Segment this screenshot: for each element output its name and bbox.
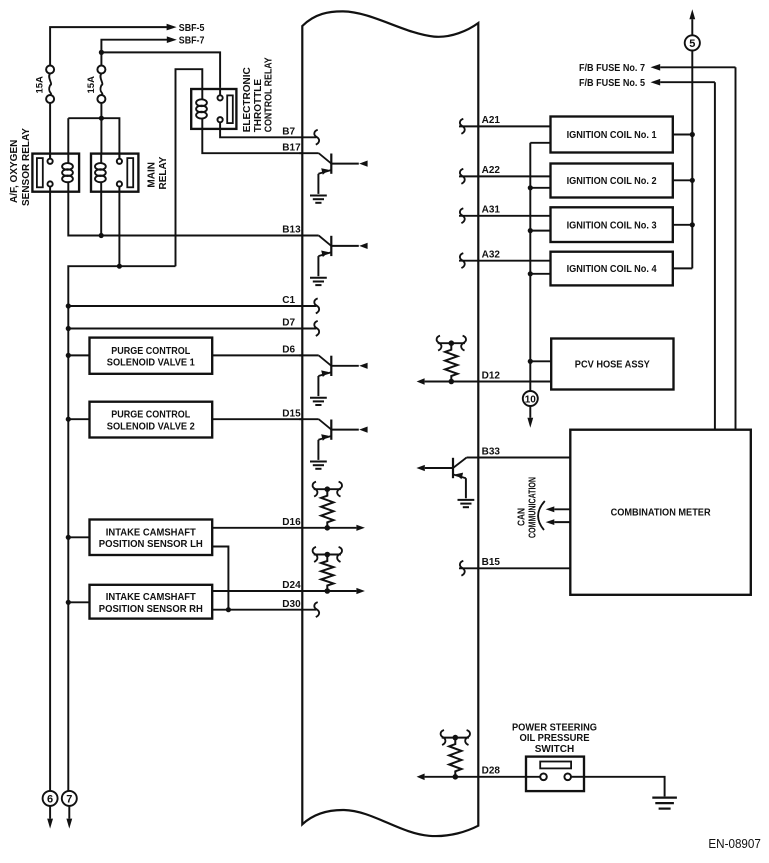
svg-text:D16: D16 (282, 517, 301, 528)
hook pin C1 (314, 298, 319, 313)
resistor R2 pullup on D24 (313, 547, 342, 594)
svg-text:A22: A22 (482, 165, 501, 176)
wire bus to intake camshaft position sensor RH (68, 601, 89, 603)
wire ignition coil 2 supply to bus (673, 179, 693, 181)
svg-text:CAN: CAN (517, 508, 528, 526)
wire pin B7 from ETC relay contact (220, 129, 316, 137)
svg-text:F/B FUSE No. 5: F/B FUSE No. 5 (579, 78, 645, 89)
relay: main relay box (91, 154, 138, 192)
svg-text:MAIN: MAIN (146, 162, 157, 188)
svg-text:THROTTLE: THROTTLE (253, 79, 264, 133)
label A31 (482, 205, 501, 216)
label MAIN RELAY (146, 156, 169, 189)
svg-text:PCV HOSE ASSY: PCV HOSE ASSY (575, 360, 650, 371)
svg-text:B7: B7 (282, 126, 295, 137)
wire D24 internal to arrow (302, 588, 365, 594)
svg-text:IGNITION COIL No. 1: IGNITION COIL No. 1 (567, 130, 657, 141)
node fuse2 output junction (99, 116, 104, 121)
svg-text:SWITCH: SWITCH (535, 744, 574, 755)
svg-text:PURGE CONTROL: PURGE CONTROL (111, 410, 190, 421)
transistor Q1 (B17 driver) (299, 153, 367, 203)
box ignition coil No.1 (551, 117, 673, 153)
arrow from F/B fuse 7 (651, 64, 736, 71)
label PURGE CONTROL SOLENOID VALVE 1 (107, 346, 195, 369)
node coil2 supply junction (690, 178, 695, 183)
node PCV supply junction (528, 359, 533, 364)
box purge control solenoid valve 2 (90, 402, 213, 438)
transistor Q5 (B33 input) (416, 458, 481, 508)
arrow below circle 7 (66, 806, 72, 829)
svg-text:7: 7 (66, 794, 72, 806)
svg-text:F/B FUSE No. 7: F/B FUSE No. 7 (579, 63, 645, 74)
node coil1 supply junction (690, 132, 695, 137)
arrow to SBF-5 (167, 24, 177, 31)
svg-text:D24: D24 (282, 580, 301, 591)
wire ignition coil 1 supply to bus (673, 134, 693, 136)
label C1 (282, 295, 295, 306)
wire bus to purge control solenoid valve 2 (68, 418, 89, 420)
ETC relay coil (196, 89, 207, 129)
box power steering oil pressure switch (526, 757, 584, 792)
label A32 (482, 250, 501, 261)
hook pin A21 (460, 119, 465, 134)
svg-text:B33: B33 (482, 446, 501, 457)
box ignition coil No.2 (551, 164, 673, 198)
main relay contact pins (117, 154, 122, 192)
label INTAKE CAMSHAFT POSITION SENSOR LH (99, 527, 203, 550)
wire pin B13 from relay coils (68, 192, 302, 236)
fuse F1 15A (46, 66, 54, 104)
svg-text:IGNITION COIL No. 3: IGNITION COIL No. 3 (567, 220, 657, 231)
svg-text:COMBINATION METER: COMBINATION METER (611, 507, 712, 518)
transistor Q2 (B13 driver) (299, 236, 367, 286)
resistor R3 pullup on D12 (437, 336, 466, 385)
wire bus to purge control solenoid valve 1 (68, 354, 89, 356)
A/F relay coil (62, 154, 73, 192)
label D12 (482, 370, 501, 381)
node main relay coil junction on B13 (99, 233, 104, 238)
svg-text:COMMUNICATION: COMMUNICATION (527, 477, 538, 538)
wire F/B fuse 7 to combination meter (735, 67, 737, 429)
label A22 (482, 165, 501, 176)
svg-text:SBF-7: SBF-7 (179, 35, 205, 46)
label B7 (282, 126, 295, 137)
svg-text:A32: A32 (482, 250, 501, 261)
hook pin B15 (460, 561, 465, 576)
svg-text:B17: B17 (282, 142, 301, 153)
node coil2 ground junction (528, 185, 533, 190)
wire bus to intake camshaft position sensor LH (68, 536, 89, 538)
svg-text:A21: A21 (482, 115, 501, 126)
node main relay output junction (117, 264, 122, 269)
svg-text:15A: 15A (35, 76, 46, 94)
wire ignition coil 4 supply to bus (673, 267, 693, 269)
wire SBF-5 feed (fuse 1 top) (50, 27, 167, 66)
wire left bus to page ref 7 (67, 306, 69, 791)
arrow below circle 6 (47, 806, 53, 829)
node bus to purge valve 2 (66, 417, 71, 422)
hook pin A32 (460, 253, 465, 268)
wire ignition coil 1 ground stub to bus (530, 142, 550, 144)
wire main relay coil to B13 (100, 192, 102, 236)
wire fuse1 to A/F relay contact (49, 103, 51, 159)
label CAN COMMUNICATION (517, 477, 539, 538)
label EN-08907 (708, 837, 761, 851)
box purge control solenoid valve 1 (90, 338, 213, 374)
wire ignition coil ground bus (529, 143, 531, 361)
wire D16 internal to arrow (302, 525, 365, 531)
svg-text:10: 10 (525, 395, 537, 406)
box intake camshaft position sensor LH (90, 520, 213, 556)
wire junction to A/F relay coil (68, 118, 101, 152)
label SBF-5 (179, 23, 205, 34)
ground (power steering switch) (652, 798, 677, 809)
label F/B FUSE No. 5 (579, 78, 645, 89)
power steering switch contact pins (540, 774, 571, 781)
wire junction to main relay contact (101, 118, 119, 159)
wire pin A31 to ignition coil 3 (459, 215, 551, 217)
svg-text:A31: A31 (482, 205, 501, 216)
label ELECTRONIC THROTTLE CONTROL RELAY (242, 57, 275, 132)
arrow above circle 5 (689, 9, 695, 35)
label B17 (282, 142, 301, 153)
svg-text:IGNITION COIL No. 2: IGNITION COIL No. 2 (567, 176, 657, 187)
label PCV HOSE ASSY (575, 360, 650, 371)
wire sensor LH to D30 node (212, 547, 228, 610)
svg-text:SOLENOID VALVE 2: SOLENOID VALVE 2 (107, 421, 195, 432)
ETC relay contact bar (227, 95, 233, 123)
label POWER STEERING OIL PRESSURE SWITCH (512, 722, 597, 755)
transistor Q4 (D15 driver) (299, 419, 367, 469)
wire pin D6 from valve 1 (212, 354, 302, 356)
wire pin A32 to ignition coil 4 (459, 260, 551, 262)
label B15 (482, 557, 501, 568)
svg-text:CONTROL RELAY: CONTROL RELAY (264, 57, 275, 132)
ETC relay contact pins (218, 89, 223, 129)
wire pin C1 (68, 305, 316, 307)
svg-text:OIL PRESSURE: OIL PRESSURE (520, 733, 590, 744)
wire SBF-7 feed (fuse 2 top) (101, 40, 167, 66)
box combination meter (570, 430, 751, 595)
label IGNITION COIL No. 2 (567, 176, 657, 187)
wire ignition supply bus to page ref 5 (691, 51, 693, 269)
label PURGE CONTROL SOLENOID VALVE 2 (107, 410, 195, 433)
svg-text:A/F, OXYGEN: A/F, OXYGEN (9, 140, 20, 203)
label IGNITION COIL No. 4 (567, 264, 657, 275)
page ref circle 10 (523, 391, 538, 406)
label F/B FUSE No. 7 (579, 63, 645, 74)
label D28 (482, 766, 501, 777)
svg-text:INTAKE CAMSHAFT: INTAKE CAMSHAFT (106, 527, 196, 538)
hook pin D7 (314, 321, 319, 336)
label D24 (282, 580, 301, 591)
wire ignition coil 2 ground stub to bus (530, 187, 550, 189)
svg-text:B13: B13 (282, 225, 301, 236)
A/F relay contact bar (37, 158, 43, 187)
svg-text:POSITION SENSOR LH: POSITION SENSOR LH (99, 539, 203, 550)
wire ignition coil 4 ground stub to bus (530, 273, 550, 275)
svg-text:EN-08907: EN-08907 (708, 837, 761, 851)
CAN bus arc (538, 501, 545, 530)
wire main relay contact output (118, 192, 120, 267)
wire ignition coil 3 ground stub to bus (530, 230, 550, 232)
wire pin D28 with arrow (417, 774, 541, 781)
page ref circle 5 (685, 35, 700, 50)
wire pin D16 from sensor LH (212, 527, 302, 529)
node bus to cam sensor LH (66, 535, 71, 540)
wire pin D30 from sensor RH (212, 609, 316, 611)
label D7 (282, 318, 295, 329)
node coil3 supply junction (690, 222, 695, 227)
wire power steering switch to ground (571, 777, 665, 797)
svg-text:6: 6 (47, 794, 53, 806)
box PCV hose assy (551, 339, 673, 390)
resistor R1 pullup on D16 (313, 482, 342, 531)
svg-text:D12: D12 (482, 370, 501, 381)
main relay coil (95, 154, 106, 192)
wire coil bus down to page ref 10 (529, 361, 531, 391)
wire pin D12 with arrow (417, 378, 552, 385)
node bus to cam sensor RH (66, 600, 71, 605)
wire F/B fuse 5 to combination meter (714, 82, 716, 430)
svg-text:SENSOR RELAY: SENSOR RELAY (21, 128, 32, 206)
wire pin D24 from sensor RH (212, 590, 302, 592)
wire coil bus to PCV hose assy (530, 360, 551, 362)
label D30 (282, 599, 301, 610)
svg-text:POWER STEERING: POWER STEERING (512, 722, 597, 733)
box intake camshaft position sensor RH (90, 585, 213, 619)
label 15A (fuse 2) (86, 76, 97, 94)
svg-text:SBF-5: SBF-5 (179, 23, 205, 34)
hook pin A22 (460, 169, 465, 184)
wire fuse2 junction to main relay coil (100, 118, 102, 152)
node bus to D7 (66, 326, 71, 331)
node coil4 ground junction (528, 271, 533, 276)
ECM connector body (torn-edge outline) (302, 11, 478, 836)
label D15 (282, 408, 301, 419)
svg-text:INTAKE CAMSHAFT: INTAKE CAMSHAFT (106, 592, 196, 603)
svg-text:RELAY: RELAY (158, 156, 169, 189)
svg-text:C1: C1 (282, 295, 295, 306)
A/F relay contact pins (48, 154, 53, 192)
label B13 (282, 225, 301, 236)
svg-text:D28: D28 (482, 766, 501, 777)
box ignition coil No.4 (551, 252, 673, 286)
page ref circle 7 (62, 791, 77, 806)
svg-text:D30: D30 (282, 599, 301, 610)
wire left bus to page ref 6 (49, 192, 51, 791)
wire switched feed rail (68, 266, 175, 306)
label D16 (282, 517, 301, 528)
wire fuse2 to relay coils junction (100, 103, 102, 118)
svg-text:ELECTRONIC: ELECTRONIC (242, 67, 253, 132)
wire pin A22 to ignition coil 2 (459, 175, 551, 177)
label A21 (482, 115, 501, 126)
label SBF-7 (179, 35, 205, 46)
transistor Q3 (D6 driver) (299, 355, 367, 405)
arrow below circle 10 (527, 406, 533, 428)
label COMBINATION METER (611, 507, 712, 518)
power steering switch contact bar (540, 762, 571, 769)
node SBF-7 tap junction (99, 50, 104, 55)
svg-text:SOLENOID VALVE 1: SOLENOID VALVE 1 (107, 358, 195, 369)
box ignition coil No.3 (551, 207, 673, 242)
svg-text:B15: B15 (482, 557, 501, 568)
svg-text:D7: D7 (282, 318, 295, 329)
node D30 junction (226, 607, 231, 612)
wire ignition coil 3 supply to bus (673, 224, 693, 226)
hook pin A31 (460, 208, 465, 223)
label IGNITION COIL No. 1 (567, 130, 657, 141)
fuse F2 15A (97, 66, 105, 104)
node bus to purge valve 1 (66, 353, 71, 358)
svg-text:D15: D15 (282, 408, 301, 419)
wire ETC relay coil supply loop (176, 69, 203, 266)
main relay contact bar (127, 158, 133, 187)
label 15A (fuse 1) (35, 76, 46, 94)
CAN arrow upper (546, 506, 571, 512)
svg-text:D6: D6 (282, 345, 295, 356)
relay: electronic throttle control relay box (191, 89, 236, 129)
wire pin D15 from valve 2 (212, 418, 302, 420)
wire pin B33 to combination meter (478, 457, 570, 459)
label IGNITION COIL No. 3 (567, 220, 657, 231)
svg-text:POSITION SENSOR RH: POSITION SENSOR RH (99, 604, 203, 615)
wire pin B15 to combination meter (459, 567, 570, 569)
hook pin D30 (314, 602, 319, 617)
label D6 (282, 345, 295, 356)
CAN arrow lower (546, 519, 571, 525)
hook pin B7 (314, 130, 319, 145)
arrow from F/B fuse 5 (651, 79, 715, 86)
node switched rail to C1 (66, 303, 71, 308)
label A/F, OXYGEN SENSOR RELAY (9, 128, 32, 206)
svg-text:15A: 15A (86, 76, 97, 94)
relay: A/F oxygen sensor relay box (32, 154, 79, 192)
svg-text:IGNITION COIL No. 4: IGNITION COIL No. 4 (567, 264, 657, 275)
wire pin A21 to ignition coil 1 (459, 125, 551, 127)
node coil3 ground junction (528, 228, 533, 233)
wire pin D7 (68, 328, 316, 330)
label INTAKE CAMSHAFT POSITION SENSOR RH (99, 592, 203, 615)
svg-text:5: 5 (689, 38, 695, 50)
svg-text:PURGE CONTROL: PURGE CONTROL (111, 346, 190, 357)
resistor R4 pullup on D28 (441, 730, 470, 780)
arrow to SBF-7 (167, 36, 177, 43)
page ref circle 6 (43, 791, 58, 806)
label B33 (482, 446, 501, 457)
wire pin B17 from ETC relay coil (202, 129, 302, 153)
wire junction to electronic throttle relay contact (101, 52, 220, 88)
